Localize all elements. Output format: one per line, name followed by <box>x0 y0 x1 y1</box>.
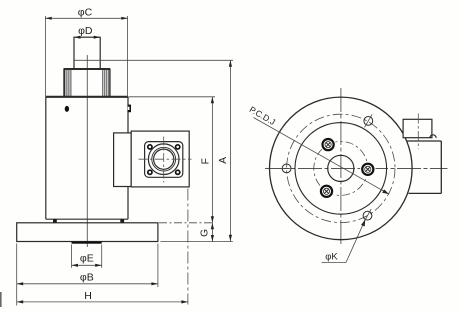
mounting hole left <box>279 164 294 173</box>
center line (side view vertical axis) <box>86 55 88 247</box>
dimension H <box>17 290 188 304</box>
svg-text:F: F <box>200 158 211 164</box>
bottom boss (phi E) <box>72 242 102 244</box>
boss thread hatching right <box>103 70 109 97</box>
dimension phi B <box>17 244 158 306</box>
face plate screw bottom-right <box>176 170 180 174</box>
cable bushing dome <box>430 135 436 138</box>
body feet right <box>120 219 124 223</box>
screw 3 (upper-left) <box>320 137 336 153</box>
svg-text:P.C.D.J: P.C.D.J <box>248 104 277 127</box>
label P.C.D.J with leader <box>248 104 389 194</box>
connector housing square (side view) <box>131 131 189 187</box>
main cylindrical body <box>46 97 128 219</box>
extension line base top to F/G <box>159 222 215 224</box>
connector crosshair <box>139 137 192 183</box>
dimension F <box>200 97 214 223</box>
middle circle (boss edge) <box>295 123 387 215</box>
vertical center line <box>340 88 342 246</box>
connector receptacle circles <box>148 144 179 175</box>
mounting hole bottom <box>363 209 372 222</box>
outer circle <box>270 97 413 240</box>
svg-text:A: A <box>218 157 229 164</box>
dimension G <box>199 223 214 242</box>
face plate screw bottom-left <box>148 170 152 174</box>
connector mounting pad (side view) <box>114 133 132 187</box>
base plate <box>17 223 158 242</box>
screw 1 (right) <box>360 162 376 178</box>
svg-text:φB: φB <box>80 271 94 283</box>
horizontal center line <box>265 168 448 170</box>
body feet left <box>53 219 57 223</box>
extension line base bottom to A <box>161 241 233 243</box>
svg-text:G: G <box>199 229 210 237</box>
set screw on body (right edge profile) <box>128 105 131 113</box>
scan artifact bottom-left edge <box>0 292 2 307</box>
threaded boss <box>64 69 110 97</box>
connector face plate <box>145 142 183 178</box>
connector body (top view) <box>407 141 442 193</box>
dimension phi E <box>72 245 102 268</box>
screw 2 (lower-left) <box>319 184 335 200</box>
bolt pitch circle (chain) <box>287 114 395 222</box>
dimension phi C <box>45 6 127 96</box>
H extension line (connector edge, chain) <box>187 189 189 305</box>
face plate screw top-left <box>148 145 152 149</box>
extension line A-top (stub shoulder) <box>74 59 233 61</box>
loading stub (phi D) <box>74 37 100 69</box>
dimension A <box>218 60 232 241</box>
svg-text:H: H <box>84 290 92 302</box>
J pitch circle (chain) <box>314 141 368 195</box>
set screw on body (left, front face) <box>65 106 69 112</box>
svg-text:φE: φE <box>80 252 94 264</box>
svg-text:φC: φC <box>78 6 93 18</box>
face plate screw top-right <box>176 145 180 149</box>
label phi K with leader <box>322 220 366 263</box>
connector plug (top view) <box>403 119 432 137</box>
dimension phi D <box>74 25 100 39</box>
mounting hole top <box>364 114 373 127</box>
svg-text:φD: φD <box>78 25 93 37</box>
svg-text:φK: φK <box>325 251 338 262</box>
extension line body top to F <box>129 96 216 98</box>
center hole <box>328 155 354 181</box>
connector plug center line <box>417 114 419 150</box>
boss thread hatching left <box>65 70 71 97</box>
